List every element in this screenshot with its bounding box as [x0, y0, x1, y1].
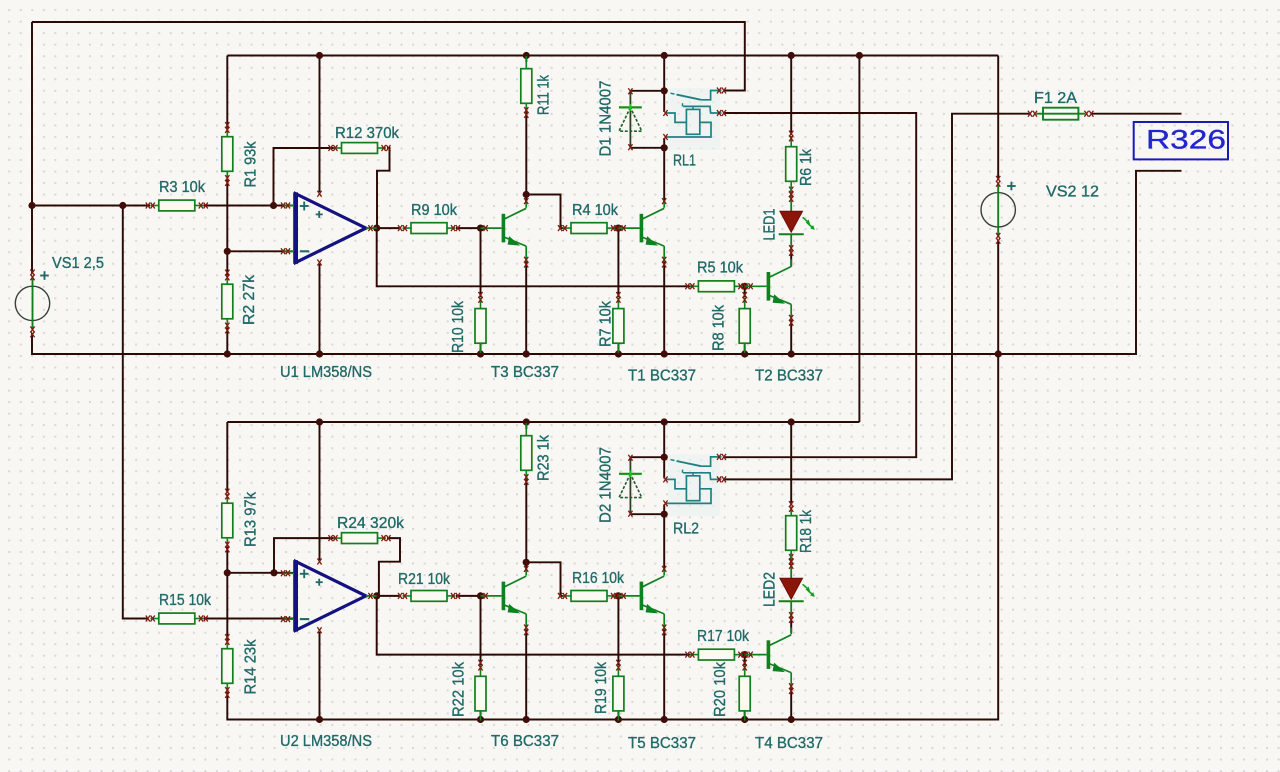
junction V+ rail U1 power — [316, 52, 323, 59]
transistor T4 — [746, 628, 823, 752]
junction ground rail R7 — [615, 350, 622, 357]
svg-text:U1 LM358/NS: U1 LM358/NS — [280, 364, 372, 381]
wire D2 cathode line — [630, 456, 664, 458]
wire VS2 minus down through ground rails — [996, 240, 998, 720]
svg-text:LED2: LED2 — [762, 572, 779, 607]
junction R4 T1 base node — [615, 225, 622, 232]
wire T4 base node down to R20 — [744, 655, 746, 665]
wire LED2 cathode to T4 collector — [790, 619, 792, 633]
wire R9 to T3 base node — [456, 227, 481, 229]
junction ground rail R2 — [224, 350, 231, 357]
LED LED2 — [762, 555, 815, 623]
wire RL2 contact to fuse F1 — [724, 114, 1030, 480]
wire V+ rail down to VS2 plus — [997, 56, 999, 181]
svg-text:R22 10k: R22 10k — [451, 661, 468, 717]
junction V+ rail 2 relay RL2 — [661, 418, 668, 425]
resistor R8 — [711, 292, 751, 353]
wire T5 emitter to channel 2 ground rail — [663, 629, 665, 720]
resistor R2 — [222, 270, 258, 334]
wire D2 anode line — [630, 513, 664, 515]
wire R14 bottom to channel 2 ground rail — [227, 690, 998, 720]
wire R19 bottom to channel 2 ground rail — [617, 688, 619, 720]
svg-text:T1 BC337: T1 BC337 — [628, 368, 696, 385]
wire R13 top corner — [226, 422, 228, 493]
wire U2 output down to LED2 branch line — [377, 596, 683, 655]
svg-text:T6 BC337: T6 BC337 — [491, 733, 559, 750]
wire V+ rail channel 1 — [227, 55, 998, 57]
wire inter-rail column V+ top to channel 2 rail — [858, 56, 860, 423]
resistor R13 — [222, 489, 260, 553]
junction V+ rail R11 — [523, 52, 530, 59]
resistor R15 — [146, 592, 212, 624]
junction VS1 plus node — [28, 202, 35, 209]
diode D1 — [598, 80, 642, 156]
junction ground rail R8 — [741, 350, 748, 357]
resistor R1 — [222, 122, 260, 187]
wire R20 bottom to channel 2 ground rail — [744, 688, 746, 720]
wire R16 node down to R19 — [617, 596, 619, 665]
resistor R19 — [593, 660, 624, 721]
fuse F1 — [1028, 90, 1093, 120]
svg-text:R14 23k: R14 23k — [243, 639, 260, 695]
svg-text:F1 2A: F1 2A — [1034, 90, 1077, 107]
svg-text:R20 10k: R20 10k — [712, 661, 729, 717]
op-amp U1 — [280, 191, 377, 381]
junction D1 anode T1 collector node — [661, 144, 668, 151]
wire T6 collector node to R16 — [526, 562, 563, 596]
resistor R7 — [598, 292, 624, 353]
wire feedback from non-inverting node up to R12 — [274, 148, 335, 206]
wire T3 emitter to ground rail — [525, 261, 527, 354]
wire R23 top to V+ rail channel 2 — [525, 422, 527, 429]
svg-text:R8 10k: R8 10k — [711, 304, 728, 351]
wire relay coil pin B to D1 anode node — [663, 138, 665, 148]
wire U1 output to R9 — [377, 227, 399, 229]
wire V+ rail channel 2 — [227, 421, 859, 423]
svg-text:R24 320k: R24 320k — [337, 515, 405, 532]
junction D1 cathode node — [661, 87, 668, 94]
svg-text:R11 1k: R11 1k — [536, 74, 553, 115]
wire LED branch to R5 — [683, 285, 691, 287]
junction ground rail U1 V- — [316, 350, 323, 357]
wire U1 output down to LED branch line — [377, 228, 683, 286]
resistor R18 — [786, 501, 815, 565]
wire T2 emitter to ground rail — [790, 320, 792, 354]
wire R4 node down to R7 — [617, 228, 619, 297]
wire R21 to T6 base node — [456, 595, 481, 597]
junction V+ rail inter-rail column — [856, 52, 863, 59]
svg-text:RL1: RL1 — [673, 153, 696, 170]
junction ground rail 2 T6 emitter — [523, 716, 530, 723]
wire VS1 plus to top loop — [31, 22, 33, 273]
wire T4 emitter to channel 2 ground rail — [790, 688, 792, 720]
wire R17 to T4 base node — [740, 654, 746, 656]
junction V+ rail 2 R23 — [523, 418, 530, 425]
junction ground rail 2 T4 emitter — [788, 716, 795, 723]
junction ground rail 2 R22 — [477, 716, 484, 723]
resistor R5 — [685, 260, 747, 292]
resistor R20 — [712, 660, 750, 721]
wire R1 bottom to inverting node — [226, 180, 228, 251]
wire inverting node to R2 — [226, 251, 228, 277]
svg-text:R326: R326 — [1146, 125, 1226, 155]
wire T3 collector node to R4 — [526, 195, 563, 229]
svg-text:R23 1k: R23 1k — [536, 434, 553, 481]
voltage source VS1 — [15, 255, 104, 337]
wire R24 right to U2 output — [377, 538, 400, 596]
junction ground rail 2 R19 — [615, 716, 622, 723]
svg-text:T5 BC337: T5 BC337 — [628, 735, 696, 752]
junction ground rail 2 U2 V- — [316, 716, 323, 723]
wire U2 non-inverting input line — [227, 572, 294, 574]
svg-text:T3 BC337: T3 BC337 — [491, 364, 559, 381]
svg-text:T4 BC337: T4 BC337 — [755, 735, 823, 752]
junction T3 collector node — [523, 191, 530, 198]
resistor R12 — [329, 125, 400, 153]
wire D1 anode line — [630, 147, 664, 149]
wire R8 bottom to ground rail — [744, 320, 746, 354]
svg-text:D2 1N4007: D2 1N4007 — [598, 447, 615, 523]
wire fuse F1 to output stub — [1092, 113, 1182, 115]
junction T4 base node — [741, 651, 748, 658]
junction R16 T5 base node — [615, 592, 622, 599]
wire R2 bottom to ground rail — [226, 326, 228, 354]
resistor R14 — [222, 634, 260, 698]
wire feedback node up to R24 — [274, 538, 334, 573]
wire U1 V- pin column — [319, 264, 321, 354]
wire R11 bottom to T3 collector node — [525, 110, 527, 195]
svg-text:R5 10k: R5 10k — [697, 260, 744, 277]
svg-text:D1 1N4007: D1 1N4007 — [598, 80, 615, 156]
svg-text:R9 10k: R9 10k — [411, 202, 458, 219]
LED LED1 — [762, 188, 815, 256]
svg-text:T2 BC337: T2 BC337 — [755, 368, 823, 385]
wire T6 base node down to R22 — [480, 596, 482, 665]
junction T2 base node — [741, 283, 748, 290]
wire R7 bottom to ground rail — [617, 320, 619, 354]
resistor R6 — [786, 131, 815, 198]
svg-text:R3 10k: R3 10k — [159, 179, 206, 196]
junction ground rail R10 — [477, 350, 484, 357]
svg-text:R18 1k: R18 1k — [798, 509, 815, 553]
wire V+ rail 2 to relay RL2 coil pin A — [663, 422, 665, 478]
transistor T3 — [481, 198, 559, 381]
wire ground rail right extension to output stub — [998, 171, 1181, 354]
junction U1 non-inverting feedback node — [270, 202, 277, 209]
svg-text:R16 10k: R16 10k — [572, 570, 625, 587]
wire T2 base node to T2 — [745, 285, 746, 287]
wire V+ top loop to relay common — [32, 22, 745, 91]
resistor R23 — [521, 423, 553, 485]
svg-text:VS2 12: VS2 12 — [1046, 184, 1099, 201]
wire R5 to T2 base node — [740, 285, 746, 287]
wire D1 cathode line — [630, 90, 664, 92]
wire R6 bottom to LED1 — [790, 193, 792, 197]
svg-text:R4 10k: R4 10k — [572, 202, 619, 219]
wire V+ rail down to R6 — [790, 56, 792, 136]
transistor T6 — [481, 566, 559, 750]
wire U2 non-inverting node down to R14 — [226, 573, 228, 641]
wire T1 collector to D1 anode node — [663, 148, 665, 202]
svg-text:VS1 2,5: VS1 2,5 — [52, 255, 104, 272]
transistor T5 — [619, 566, 696, 752]
wire LED2 branch to R17 — [683, 654, 691, 656]
wire R18 bottom to LED2 — [790, 553, 792, 564]
wire R1 top column — [226, 56, 228, 129]
wire T5 collector to D2 anode node — [663, 514, 665, 570]
wire R16 right node to T5 base — [614, 595, 621, 597]
junction U2 non-inverting node — [224, 569, 231, 576]
junction U1 output node — [373, 225, 380, 232]
junction ground rail 2 T5 emitter — [661, 716, 668, 723]
junction ground rail T3 emitter — [523, 350, 530, 357]
wire V+ rail 2 down to R18 — [790, 422, 792, 505]
junction U2 output node — [373, 592, 380, 599]
wire T1 base node — [618, 227, 621, 229]
wire R23 bottom to T6 collector node — [525, 477, 527, 562]
junction V+ rail 2 R18 — [788, 418, 795, 425]
wire U2 V- pin column — [319, 632, 321, 720]
wire R13 bottom to U2 non-inverting node — [226, 545, 228, 573]
svg-text:R1 93k: R1 93k — [243, 141, 260, 188]
junction V+ rail R6 — [788, 52, 795, 59]
wire R15 to U2 inverting input — [204, 618, 295, 620]
svg-text:R12 370k: R12 370k — [335, 125, 400, 142]
svg-text:R17 10k: R17 10k — [697, 628, 750, 645]
svg-text:R7 10k: R7 10k — [598, 300, 615, 347]
resistor R3 — [146, 179, 208, 211]
wire RL1 contact to RL2 common — [724, 113, 916, 457]
wire R22 bottom to channel 2 ground rail — [480, 688, 482, 720]
junction D2 cathode node — [661, 454, 668, 461]
wire U2 output to R21 — [377, 595, 399, 597]
junction T3 base node — [477, 225, 484, 232]
wire R11 top to V+ rail — [525, 56, 527, 63]
junction T6 base node — [477, 592, 484, 599]
wire R3 to op-amp U1 non-inverting input — [204, 205, 295, 207]
wire signal input line — [32, 205, 150, 207]
wire U1 V+ pin column — [319, 56, 321, 193]
transistor T1 — [619, 198, 696, 384]
svg-text:R13 97k: R13 97k — [243, 491, 260, 547]
wire V+ rail to relay coil pin A — [663, 56, 665, 113]
resistor R11 — [521, 56, 553, 118]
wire signal branch down to channel 2 — [123, 206, 148, 619]
relay RL2 — [663, 454, 726, 538]
junction D2 anode T5 collector node — [661, 511, 668, 518]
voltage source VS2 — [981, 176, 1099, 244]
svg-text:R19 10k: R19 10k — [593, 661, 610, 714]
junction U1 inverting node — [224, 248, 231, 255]
junction ground rail T1 emitter — [661, 350, 668, 357]
wire T1 emitter to ground rail — [663, 261, 665, 354]
wire RL2 coil pin B to D2 anode node — [663, 504, 665, 514]
resistor R16 — [558, 570, 625, 601]
wire R4 right node to T1 base — [614, 227, 618, 229]
diode D2 — [598, 447, 642, 523]
svg-text:R21 10k: R21 10k — [398, 571, 451, 588]
junction ground rail VS2 minus — [995, 350, 1002, 357]
svg-text:R2 27k: R2 27k — [241, 274, 258, 325]
junction ground rail T2 emitter — [788, 350, 795, 357]
wire LED1 cathode to T2 collector — [790, 252, 792, 267]
svg-text:R15 10k: R15 10k — [159, 592, 212, 609]
junction U2 feedback node — [270, 569, 277, 576]
wire T6 emitter to channel 2 ground rail — [525, 629, 527, 720]
svg-text:LED1: LED1 — [762, 208, 779, 240]
wire U2 V+ pin column — [319, 422, 321, 560]
junction ground rail 2 R20 — [741, 716, 748, 723]
wire base node to T3 — [481, 227, 483, 229]
junction T6 collector node — [523, 559, 530, 566]
title box R326 — [1134, 122, 1228, 159]
resistor R10 — [450, 292, 486, 353]
junction V+ rail relay RL1 — [661, 52, 668, 59]
wire VS1 minus to ground rail — [32, 333, 996, 354]
resistor R9 — [398, 202, 460, 234]
resistor R4 — [558, 202, 620, 234]
transistor T2 — [746, 259, 823, 384]
wire R10 bottom to ground rail — [480, 320, 482, 354]
wire R12 right to U1 output — [377, 148, 390, 228]
wire base node down to R10 — [480, 228, 482, 297]
resistor R22 — [451, 660, 487, 721]
relay RL1 — [663, 88, 726, 170]
wire T6 collector to node — [525, 562, 527, 571]
junction signal input branch — [119, 202, 126, 209]
wire T2 base node down to R8 — [744, 286, 746, 297]
wire T3 collector to node — [525, 195, 527, 204]
junction V+ rail 2 U2 power — [316, 418, 323, 425]
svg-text:RL2: RL2 — [673, 521, 699, 538]
wire U1 inverting input line — [227, 250, 294, 252]
svg-text:R10 10k: R10 10k — [450, 300, 467, 353]
svg-text:U2 LM358/NS: U2 LM358/NS — [280, 733, 372, 750]
resistor R17 — [685, 628, 749, 660]
svg-text:R6 1k: R6 1k — [798, 148, 815, 186]
resistor R21 — [398, 571, 460, 601]
resistor R24 — [329, 515, 405, 544]
op-amp U2 — [280, 559, 377, 751]
